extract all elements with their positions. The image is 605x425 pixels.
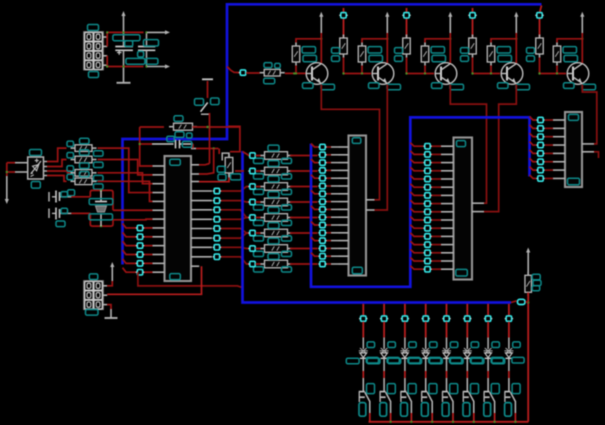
connector JP1 8-pin header xyxy=(84,32,103,70)
resistor R4a pull xyxy=(469,35,477,58)
wire bus to LED6 xyxy=(466,304,468,316)
LED2 labels xyxy=(367,342,399,364)
junction LED2 xyxy=(380,316,388,321)
wire U2 pin 4 xyxy=(326,169,339,171)
junction U1 left b5 xyxy=(136,270,144,275)
wire U2 pin 6 xyxy=(326,185,339,187)
junction U3 pin 4 xyxy=(423,168,431,173)
transistor Q2 xyxy=(372,63,394,85)
Q4 value label xyxy=(516,84,530,90)
wire Q4 collector xyxy=(515,33,517,63)
wire crystal loop xyxy=(90,189,113,227)
resistor R27 xyxy=(260,260,292,268)
resistor R2b bias xyxy=(358,43,366,66)
resistor R23 xyxy=(260,198,292,206)
wire U1 bottom loop xyxy=(138,272,242,287)
wire GND rail from JP1 xyxy=(107,56,143,67)
junction U4 pin 6 xyxy=(536,159,544,164)
bus B1 top horizontal+left drop xyxy=(123,4,542,264)
wire R22 left stub xyxy=(256,186,261,188)
wire U2 pin 2 xyxy=(326,154,339,156)
U4 name label xyxy=(569,114,579,120)
R1b labels xyxy=(302,47,317,62)
junction LED5 xyxy=(442,316,450,321)
diode LED1 xyxy=(359,348,368,358)
R23 labels xyxy=(254,192,292,210)
wire bus drop to stage5 xyxy=(540,6,542,38)
capacitor C4 xyxy=(49,208,71,220)
resistor R11 array xyxy=(71,156,97,163)
R22 labels xyxy=(254,176,292,194)
diode LED8 xyxy=(504,348,513,358)
transistor Q1 xyxy=(306,63,328,85)
optocoupler OK1 label bottom xyxy=(31,182,40,189)
wire bus to U1 left pin b3 xyxy=(123,250,153,255)
resistor R20 xyxy=(260,152,292,160)
Q3 name label xyxy=(432,83,443,89)
junction U2 pin 16 xyxy=(318,261,326,266)
C4 labels xyxy=(56,208,68,226)
junction U4 pin 2 xyxy=(536,126,544,131)
U3 left pin stubs xyxy=(441,146,454,269)
junction U1 right 6 xyxy=(213,235,221,240)
wire U2 pin 15 xyxy=(311,253,339,257)
wire net to R14 xyxy=(228,126,240,151)
wire XTAL2 to U1 xyxy=(113,218,153,221)
resistor R9 input xyxy=(260,69,285,76)
junction R22 left xyxy=(248,184,256,189)
diode LED4 xyxy=(421,348,430,358)
wire R14 to U1 pin r1 xyxy=(199,173,229,182)
U1 right extra pin stubs xyxy=(191,149,199,182)
wire bus drop to stage3 xyxy=(406,8,408,38)
supply arrow GND right bottom xyxy=(147,64,170,68)
wire R27 right xyxy=(290,263,318,265)
wire R4a to base node xyxy=(471,58,500,75)
wire R1b top to collector node xyxy=(296,38,322,43)
wire R2b bottom to base xyxy=(361,66,363,75)
Q2 value label xyxy=(387,84,401,90)
wire LED5 cathode xyxy=(446,359,448,378)
LED5 labels xyxy=(430,342,462,364)
wire R24 right xyxy=(290,217,318,219)
resistor R26 xyxy=(260,245,292,253)
JP1 pin stubs xyxy=(103,37,107,65)
junction U2 pin 9 xyxy=(318,207,326,212)
junction U4 pin 1 xyxy=(536,117,544,122)
K3 labels xyxy=(401,384,417,417)
junction LED3 xyxy=(401,316,409,321)
capacitor C5 above U1 xyxy=(152,140,193,149)
junction U3 pin 16 xyxy=(423,267,431,272)
junction U1 left b0 xyxy=(136,225,144,230)
wire bus to U1 left pin b4 xyxy=(123,259,153,264)
junction bus drop 2 xyxy=(339,13,347,18)
wire R13 to U1 pin5 xyxy=(98,181,153,201)
R21 labels xyxy=(254,161,292,179)
U2 value label xyxy=(352,267,362,274)
wire R10 to U1 pin4 xyxy=(98,148,153,192)
wire R2b top to collector node xyxy=(362,38,388,43)
R11 labels xyxy=(67,150,103,168)
wire R2a to base node xyxy=(342,58,371,75)
supply arrow down OK1 xyxy=(5,176,9,204)
wire bus to LED7 xyxy=(487,304,489,316)
R2a label xyxy=(332,48,340,62)
wire Q2 collector xyxy=(386,33,388,63)
supply arrow VCC R15 xyxy=(526,248,530,276)
junction U1 right 4 xyxy=(213,217,221,222)
wire K7 to bottom rail xyxy=(494,413,496,422)
junction R24 left xyxy=(248,215,256,220)
junction U1 right 8 xyxy=(213,254,221,259)
switch S1 label left xyxy=(195,99,204,106)
wire R9 to Q1 base xyxy=(285,72,307,74)
junction R21 left xyxy=(248,168,256,173)
wire Q3 collector xyxy=(449,33,451,63)
wire LED3 cathode xyxy=(404,359,406,378)
U2 right pin stubs xyxy=(366,200,375,210)
wire U1 right pin 2 xyxy=(220,201,250,202)
crystal X1 xyxy=(95,190,107,226)
wire OK1 right pin3 xyxy=(44,171,71,173)
U2 name label xyxy=(352,138,361,144)
wire LED3 anode xyxy=(404,322,406,349)
Q2 name label xyxy=(369,83,380,89)
capacitor C3 xyxy=(49,191,71,203)
K7 labels xyxy=(484,384,500,417)
wire U3 pin 2 xyxy=(410,151,441,155)
resistor R24 xyxy=(260,214,292,222)
U4 right pin stubs xyxy=(582,144,594,152)
wire U2 pin 16 xyxy=(326,263,339,265)
wire R24 left stub xyxy=(256,217,261,219)
junction U3 pin 9 xyxy=(423,209,431,214)
wire LED8 anode xyxy=(508,322,510,349)
supply arrow VCC Q1 xyxy=(319,12,323,33)
junction U1 right 3 xyxy=(213,207,221,212)
supply arrow VCC right top xyxy=(147,30,170,34)
U4 left pin stubs xyxy=(553,120,565,178)
wire Q5 collector xyxy=(581,33,583,63)
wire U3 pin 4 xyxy=(410,167,441,171)
junction R25 left xyxy=(248,230,256,235)
C5 labels xyxy=(167,136,192,147)
junction U1 right 5 xyxy=(213,226,221,231)
LED6 labels xyxy=(450,342,482,364)
U4 value label xyxy=(568,178,580,185)
contact K5 xyxy=(442,378,453,413)
wire LED4 anode xyxy=(425,322,427,349)
connector JP2 6-pin header xyxy=(84,281,103,309)
wire to C5 xyxy=(139,143,153,145)
wire input junction to R9 xyxy=(246,72,260,74)
diode LED7 xyxy=(484,348,493,358)
optocoupler OK1 body xyxy=(28,157,44,179)
U1 name label xyxy=(170,159,181,165)
wire Q1 emitter to U2 pin xyxy=(321,85,379,200)
junction U3 pin 3 xyxy=(423,160,431,165)
junction R26 left xyxy=(248,246,256,251)
switch S1 label right xyxy=(211,98,220,105)
diode LED5 xyxy=(442,348,451,358)
wire RST horizontal xyxy=(140,126,164,128)
K6 labels xyxy=(463,384,479,417)
junction input net xyxy=(239,70,247,75)
wire bus to LED5 xyxy=(446,304,448,316)
wire U1 pin to R14 col xyxy=(199,149,214,175)
wire U3 pin 15 xyxy=(410,258,441,262)
junction U3 pin 5 xyxy=(423,176,431,181)
U3 name label xyxy=(457,141,466,147)
junction bus drop 5 xyxy=(535,13,543,18)
ground symbol below C1 xyxy=(117,67,131,83)
wire U2 pin 3 xyxy=(311,159,339,163)
resistor R21 xyxy=(260,167,292,175)
junction U4 pin 4 xyxy=(536,142,544,147)
junction U1 left b4 xyxy=(136,261,144,266)
switch S1 tee xyxy=(202,79,213,98)
wire VCC rail from JP1 xyxy=(107,32,143,46)
wire bus to LED3 xyxy=(404,304,406,316)
wire U3 pin 6 xyxy=(410,184,441,188)
Q5 name label xyxy=(564,83,575,89)
junction U2 pin 11 xyxy=(318,222,326,227)
R8 labels xyxy=(174,116,192,138)
wire R3a to base node xyxy=(405,58,434,75)
junction U2 pin 12 xyxy=(318,230,326,235)
wire R20 left stub xyxy=(256,155,261,157)
junction U2 pin 4 xyxy=(318,168,326,173)
supply arrow VCC top xyxy=(121,11,125,32)
R14 labels xyxy=(217,166,241,180)
wire OK1 right pin4 xyxy=(44,176,67,182)
junction U2 pin 8 xyxy=(318,199,326,204)
transistor Q5 xyxy=(567,63,589,85)
junction U3 pin 1 xyxy=(423,144,431,149)
wire U1 right pin 3 xyxy=(220,210,250,218)
R20 labels xyxy=(254,145,292,163)
junction U3 pin 14 xyxy=(423,250,431,255)
R25 labels xyxy=(254,223,292,241)
wire R25 right xyxy=(290,232,318,234)
wire LED7 cathode xyxy=(487,359,489,378)
transistor Q4 xyxy=(501,63,523,85)
K4 labels xyxy=(421,384,437,417)
wire R23 right xyxy=(290,201,318,203)
wire U4 pin 7 xyxy=(530,167,554,171)
junction U2 pin 7 xyxy=(318,191,326,196)
junction U2 pin 10 xyxy=(318,215,326,220)
junction U2 pin 6 xyxy=(318,183,326,188)
wire U4 pin 8 xyxy=(530,175,554,179)
wire bus link to R15 net xyxy=(511,299,528,304)
R4a label xyxy=(461,48,469,62)
wire K6 to bottom rail xyxy=(473,413,475,422)
Q4 name label xyxy=(498,83,509,89)
ground symbol JP2 xyxy=(105,309,118,318)
wire U1 right pin 6 xyxy=(220,233,250,238)
bus B2 left vertical to LED rail xyxy=(243,151,512,303)
wire bottom rail xyxy=(369,421,529,423)
junction U3 pin 7 xyxy=(423,193,431,198)
wire U3 pin 12 xyxy=(410,233,441,237)
wire input net to stage1 xyxy=(227,67,240,73)
wire R25 left stub xyxy=(256,232,261,234)
U3 right pin stubs xyxy=(472,203,484,211)
wire K5 to bottom rail xyxy=(452,413,454,422)
resistor R3b bias xyxy=(421,43,429,66)
U1 right pin stubs xyxy=(191,191,212,266)
wire R3b top to collector node xyxy=(425,38,451,43)
Q3 value label xyxy=(450,84,464,90)
capacitor C2 ceramic xyxy=(138,32,155,66)
VCC rail label2 xyxy=(146,58,158,64)
K2 labels xyxy=(380,384,396,417)
wire bus top diag to R20 xyxy=(243,152,250,156)
wire U4 pin2 stub xyxy=(594,152,599,158)
wire bus to U1 left pin b0 xyxy=(123,223,153,228)
X1 labels xyxy=(89,199,113,220)
wire U2 pin 10 xyxy=(326,216,339,218)
wire LED7 anode xyxy=(487,322,489,349)
R9 labels xyxy=(264,63,281,84)
wire LED8 cathode xyxy=(508,359,510,378)
junction dots power rails xyxy=(106,31,148,68)
U2 left pin stubs xyxy=(339,147,349,264)
wire U3 pin 9 xyxy=(410,208,441,212)
R27 labels xyxy=(254,254,292,272)
wire R26 left stub xyxy=(256,248,261,250)
R10 labels xyxy=(67,138,103,156)
wire R26 right xyxy=(290,248,318,250)
wire U3 pin 3 xyxy=(410,159,441,163)
wire R12 to U1 pin3 xyxy=(98,173,153,184)
wire OK1 left pins xyxy=(6,163,28,176)
junction U3 pin 15 xyxy=(423,258,431,263)
wire U4 pin 2 xyxy=(530,125,554,129)
R12 labels xyxy=(67,163,103,181)
wire R23 left stub xyxy=(256,201,261,203)
wire Q3 emitter to U3 pin xyxy=(450,85,486,204)
switch S1 lever xyxy=(201,103,210,115)
wire Q5 emitter to U4 pin xyxy=(582,85,597,144)
wire bus to U1 left pin b2 xyxy=(123,241,153,246)
wire U2 pin 14 xyxy=(326,247,339,249)
R3a label xyxy=(395,48,403,62)
contact K6 xyxy=(463,378,474,413)
wire U2 pin 7 xyxy=(311,190,339,194)
wire U4 pin 1 xyxy=(530,117,554,121)
wire U2 pin 1 xyxy=(311,144,339,148)
wire Q1 collector xyxy=(320,33,322,63)
capacitor C1 electrolytic xyxy=(115,32,133,66)
wire U1 right pin 1 xyxy=(220,187,250,192)
Q1 name label xyxy=(303,83,314,89)
junction U3 pin 10 xyxy=(423,217,431,222)
GND rail label xyxy=(126,58,145,64)
junction U4 pin 5 xyxy=(536,151,544,156)
diode LED3 xyxy=(400,348,409,358)
wire bus to LED8 xyxy=(508,304,510,316)
wire bus to LED4 xyxy=(425,304,427,316)
junction U4 pin 8 xyxy=(536,176,544,181)
diode LED2 xyxy=(380,348,389,358)
junction U4 pin 7 xyxy=(536,167,544,172)
LED8 labels xyxy=(492,342,524,364)
wire U3 pin 13 xyxy=(410,241,441,245)
wire Q2 emitter to U2 pin xyxy=(375,85,388,211)
wire bus drop to stage2 xyxy=(343,8,345,38)
resistor R10 array xyxy=(71,145,97,152)
resistor R12 array xyxy=(71,170,97,177)
wire R4b bottom to base xyxy=(490,66,492,75)
junction bus drop 4 xyxy=(468,13,476,18)
wire U4 pin 3 xyxy=(530,133,554,137)
junction U2 pin 5 xyxy=(318,176,326,181)
contact K7 xyxy=(484,378,495,413)
wire U3 pin 5 xyxy=(410,176,441,180)
wire U3 pin 16 xyxy=(410,266,441,270)
junction U3 pin 13 xyxy=(423,242,431,247)
junction U2 pin 2 xyxy=(318,152,326,157)
junction U1 right 2 xyxy=(213,198,221,203)
wire U2 pin 8 xyxy=(326,201,339,203)
wire bus to LED1 xyxy=(362,304,364,316)
wire Q4 emitter to U3 pin xyxy=(484,85,516,212)
wire K1 to bottom rail xyxy=(369,413,371,422)
wire bus drop to stage4 xyxy=(472,8,474,38)
contact K8 xyxy=(504,378,515,413)
junction U3 pin 6 xyxy=(423,185,431,190)
junction U4 pin 3 xyxy=(536,134,544,139)
junction U1 right 7 xyxy=(213,245,221,250)
junction R27 left xyxy=(248,261,256,266)
junction LED4 xyxy=(422,316,430,321)
junction LED7 xyxy=(484,316,492,321)
wire LED1 anode xyxy=(362,322,364,349)
resistor R14 xyxy=(222,153,233,176)
JP2 pin stubs xyxy=(103,286,107,305)
wire U1 right pin 4 xyxy=(220,218,250,220)
contact K4 xyxy=(421,378,432,413)
C1 value label xyxy=(113,35,140,41)
supply arrow VCC Q5 xyxy=(580,12,584,33)
wire U3 pin 14 xyxy=(410,249,441,253)
diode LED6 xyxy=(463,348,472,358)
wire R22 right xyxy=(290,186,318,188)
IC U3 body xyxy=(454,138,473,280)
junction R20 left xyxy=(248,153,256,158)
wire LED6 cathode xyxy=(466,359,468,378)
junction U2 pin 1 xyxy=(318,144,326,149)
wire U2 pin 13 xyxy=(311,237,339,241)
junction U1 left b1 xyxy=(136,234,144,239)
supply arrow VCC JP2 xyxy=(107,262,114,286)
connector JP1 bottom label xyxy=(89,72,99,78)
junction LED8 xyxy=(505,316,513,321)
R5a label xyxy=(527,48,535,62)
junction U2 pin 13 xyxy=(318,238,326,243)
wire switch to net xyxy=(199,113,211,165)
R24 labels xyxy=(254,207,292,225)
supply arrow VCC Q4 xyxy=(514,12,518,33)
wire K3 to bottom rail xyxy=(410,413,412,422)
junction U1 left b2 xyxy=(136,243,144,248)
wire LED2 anode xyxy=(383,322,385,349)
wire R1b bottom to base xyxy=(295,66,297,75)
contact K2 xyxy=(380,378,391,413)
